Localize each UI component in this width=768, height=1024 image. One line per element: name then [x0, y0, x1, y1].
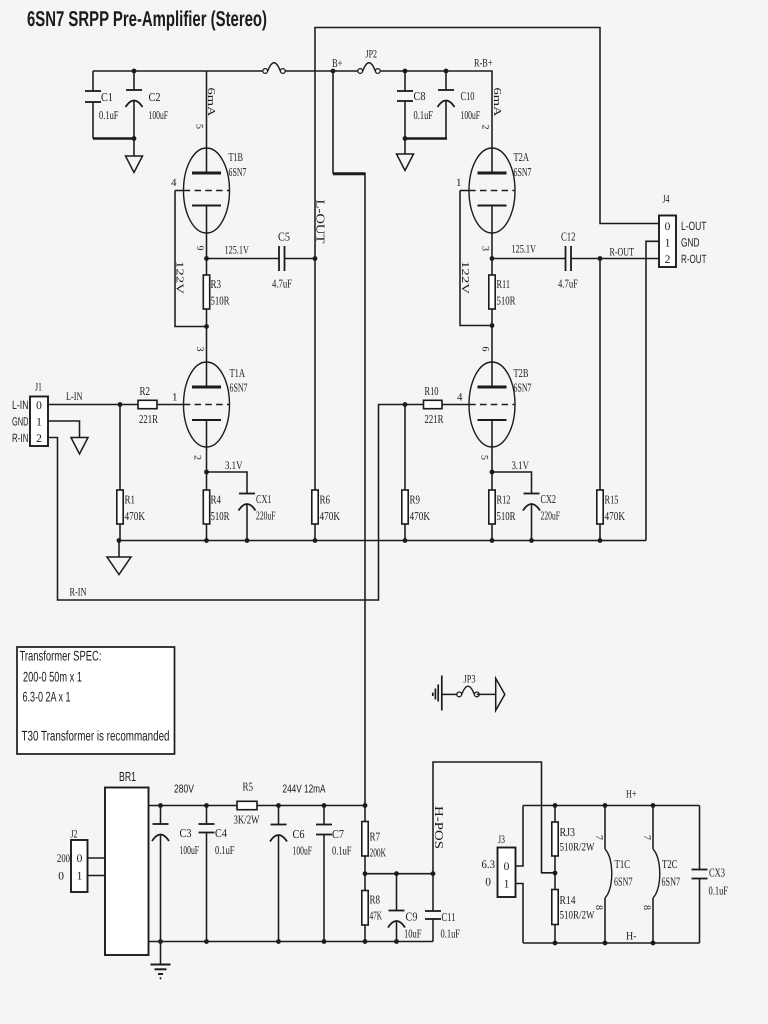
svg-text:T1B: T1B — [229, 150, 244, 164]
svg-text:R3: R3 — [211, 277, 222, 291]
node RJ4 bottom — [553, 941, 558, 946]
svg-text:8: 8 — [593, 905, 604, 910]
resistor RJ3 — [553, 803, 558, 808]
svg-text:470K: 470K — [320, 509, 341, 523]
svg-text:BR1: BR1 — [119, 769, 136, 784]
svg-text:C1: C1 — [101, 90, 113, 104]
svg-text:200: 200 — [57, 853, 70, 865]
svg-text:221R: 221R — [139, 412, 158, 426]
heater T2C — [651, 803, 656, 808]
svg-text:6.3: 6.3 — [482, 859, 496, 871]
node T1B cathode — [204, 256, 209, 261]
svg-text:0.1uF: 0.1uF — [99, 108, 119, 122]
connector J4 — [659, 216, 676, 268]
bridge rectifier BR1 — [105, 788, 149, 956]
svg-text:R-OUT: R-OUT — [610, 247, 635, 259]
node CX2 gnd — [529, 538, 534, 543]
ground J1 — [71, 438, 88, 455]
svg-text:C4: C4 — [215, 826, 227, 840]
svg-text:2: 2 — [480, 125, 491, 130]
svg-text:200K: 200K — [370, 846, 387, 860]
heater T1C — [603, 803, 608, 808]
node T2B plate — [490, 323, 495, 328]
node R1 top — [118, 402, 123, 407]
svg-text:220uF: 220uF — [541, 509, 561, 523]
svg-text:100uF: 100uF — [461, 108, 481, 122]
wire J2 pin0 to BR1 — [88, 857, 106, 859]
svg-text:JP2: JP2 — [366, 49, 378, 61]
resistor R6 — [314, 259, 316, 491]
svg-text:T1C: T1C — [615, 857, 631, 871]
node R7 R8 junction — [363, 871, 368, 876]
svg-text:J1: J1 — [35, 382, 42, 394]
wire T2A grid 122V — [460, 190, 470, 192]
capacitor C1 — [92, 71, 94, 91]
wire PSU B+ rail — [149, 805, 238, 807]
svg-text:4: 4 — [457, 392, 463, 404]
resistor R9 — [404, 405, 406, 491]
svg-text:1: 1 — [665, 238, 671, 250]
node T1A cathode 3.1V — [204, 470, 209, 475]
triode T1A — [206, 327, 208, 388]
svg-text:RJ3: RJ3 — [560, 825, 576, 839]
svg-text:221R: 221R — [425, 412, 444, 426]
svg-text:0.1uF: 0.1uF — [215, 843, 235, 857]
wire main B+ rail — [93, 70, 263, 72]
wire J3 pin0 riser — [516, 806, 524, 867]
svg-text:R14: R14 — [560, 893, 576, 907]
jumper JP3 — [457, 692, 462, 697]
svg-text:122V: 122V — [459, 261, 470, 295]
svg-text:100uF: 100uF — [180, 843, 200, 857]
svg-text:R1: R1 — [125, 493, 136, 507]
svg-text:6SN7 SRPP Pre-Amplifier (Stere: 6SN7 SRPP Pre-Amplifier (Stereo) — [27, 7, 267, 31]
svg-text:125.1V: 125.1V — [512, 244, 537, 256]
note transformer spec box — [17, 647, 175, 754]
svg-text:CX2: CX2 — [541, 492, 557, 506]
wire H+ bus — [523, 805, 700, 807]
resistor R11 — [491, 259, 493, 276]
svg-text:R4: R4 — [211, 493, 222, 507]
svg-text:6.3-0 2A x 1: 6.3-0 2A x 1 — [23, 689, 71, 705]
svg-text:510R/2W: 510R/2W — [560, 910, 595, 922]
wire B+ drop — [332, 71, 334, 174]
capacitor C5 — [207, 258, 280, 260]
svg-text:470K: 470K — [125, 509, 146, 523]
svg-text:5: 5 — [194, 124, 205, 129]
svg-text:4: 4 — [171, 177, 177, 189]
svg-text:CX3: CX3 — [709, 866, 725, 880]
svg-text:6SN7: 6SN7 — [514, 381, 532, 395]
wire L-OUT to J4 — [315, 28, 659, 259]
triode T2A — [491, 71, 493, 173]
wire J3 pin1 drop — [516, 884, 524, 944]
wire T1B cathode to node — [206, 206, 208, 259]
svg-text:3.1V: 3.1V — [225, 460, 243, 472]
svg-text:C6: C6 — [293, 827, 305, 841]
wire R-IN from J1 — [48, 405, 424, 601]
svg-text:R-OUT: R-OUT — [681, 252, 707, 266]
node T2B cathode 3.1V — [490, 470, 495, 475]
wire ground bus — [119, 540, 646, 542]
node B+ — [331, 69, 336, 74]
svg-text:100uF: 100uF — [149, 108, 169, 122]
ground below C8 — [404, 139, 406, 155]
svg-text:1: 1 — [77, 871, 83, 883]
resistor R5 — [237, 801, 257, 809]
capacitor CX3 — [699, 806, 701, 870]
svg-text:470K: 470K — [410, 509, 431, 523]
connector J1 — [30, 397, 48, 447]
capacitor C9 — [394, 871, 399, 876]
svg-text:125.1V: 125.1V — [225, 245, 250, 257]
svg-text:GND: GND — [12, 415, 29, 429]
capacitor CX2 — [492, 472, 532, 494]
svg-text:10uF: 10uF — [404, 927, 422, 941]
resistor R7 — [364, 806, 366, 822]
jumper JP1 — [263, 69, 268, 74]
ground bus symbol — [118, 541, 120, 558]
svg-text:C8: C8 — [414, 89, 426, 103]
svg-text:470K: 470K — [605, 509, 626, 523]
wire H-POS junction row — [365, 873, 433, 875]
svg-text:2: 2 — [192, 455, 203, 460]
svg-text:0.1uF: 0.1uF — [441, 927, 461, 941]
svg-text:280V: 280V — [174, 784, 194, 796]
svg-text:R-B+: R-B+ — [474, 58, 493, 70]
capacitor C11 — [431, 871, 436, 876]
wire J2 pin1 to BR1 — [88, 875, 106, 877]
svg-text:0: 0 — [36, 400, 42, 412]
node C7 gnd — [322, 939, 327, 944]
svg-text:C5: C5 — [278, 230, 290, 244]
svg-text:3: 3 — [194, 347, 205, 352]
svg-text:C3: C3 — [180, 826, 192, 840]
wire R2 to T1A grid — [157, 404, 184, 406]
resistor R2 — [138, 400, 157, 408]
wire L-IN — [48, 404, 138, 406]
ground below C2 — [133, 139, 135, 157]
wire B+ riser to PSU — [364, 173, 366, 806]
resistor R4 — [206, 472, 208, 490]
svg-text:R11: R11 — [497, 277, 511, 291]
capacitor C7 — [322, 803, 327, 808]
svg-text:J3: J3 — [498, 834, 505, 846]
node R12 gnd — [490, 538, 495, 543]
svg-text:R-IN: R-IN — [12, 431, 29, 445]
wire B+ jog — [333, 172, 365, 175]
wire T2B cathode — [491, 420, 493, 472]
node R9 top — [403, 402, 408, 407]
svg-text:R9: R9 — [410, 493, 421, 507]
wire C1-C2 bottom — [93, 137, 135, 140]
svg-text:T2C: T2C — [662, 857, 678, 871]
svg-text:6: 6 — [480, 347, 491, 352]
svg-text:L-OUT: L-OUT — [314, 200, 328, 245]
resistor R15 — [599, 259, 601, 491]
svg-text:C2: C2 — [149, 90, 161, 104]
resistor R12 — [491, 472, 493, 490]
node R-OUT junction — [598, 256, 603, 261]
svg-text:C12: C12 — [561, 230, 576, 244]
svg-text:6SN7: 6SN7 — [662, 875, 681, 889]
svg-text:T1A: T1A — [230, 366, 246, 380]
svg-text:5: 5 — [479, 455, 490, 460]
wire PSU ground bus — [149, 941, 434, 943]
node R8 gnd — [363, 939, 368, 944]
triode T2B — [491, 326, 493, 388]
capacitor C12 — [492, 258, 566, 260]
capacitor C4 — [204, 803, 209, 808]
svg-text:6SN7: 6SN7 — [514, 165, 532, 179]
svg-text:R10: R10 — [425, 384, 439, 398]
svg-text:1: 1 — [504, 879, 510, 891]
svg-text:7: 7 — [641, 835, 652, 840]
connector J2 — [71, 840, 88, 892]
node R6 gnd — [313, 538, 318, 543]
capacitor C6 — [276, 803, 281, 808]
svg-text:3K/2W: 3K/2W — [234, 813, 260, 827]
node C6 gnd — [276, 939, 281, 944]
wire T2A cathode to node — [491, 206, 493, 259]
svg-text:JP3: JP3 — [464, 674, 476, 686]
resistor R10 — [424, 400, 443, 408]
node heater center tap — [553, 871, 558, 876]
svg-text:6mA: 6mA — [491, 88, 502, 118]
svg-text:2: 2 — [36, 433, 42, 445]
svg-text:0: 0 — [485, 877, 491, 889]
svg-text:4.7uF: 4.7uF — [272, 277, 292, 291]
node CX1 gnd — [245, 538, 250, 543]
wire T1B grid 122V — [175, 190, 184, 192]
svg-text:510R: 510R — [211, 294, 230, 308]
wire JP3 right — [477, 693, 496, 695]
svg-text:L-OUT: L-OUT — [681, 219, 707, 233]
svg-text:J4: J4 — [663, 194, 670, 206]
svg-text:122V: 122V — [174, 261, 185, 295]
arrow JP3 — [496, 678, 505, 710]
svg-text:R2: R2 — [140, 384, 151, 398]
svg-text:6mA: 6mA — [205, 88, 216, 118]
wire H-POS — [433, 762, 553, 874]
svg-text:R8: R8 — [370, 893, 381, 907]
capacitor C8 — [403, 69, 408, 74]
svg-text:1: 1 — [172, 392, 178, 404]
svg-text:0.1uF: 0.1uF — [709, 884, 729, 898]
node T2A cathode — [490, 256, 495, 261]
svg-text:0: 0 — [77, 853, 83, 865]
node T1A plate — [204, 324, 209, 329]
wire H- bus — [523, 942, 700, 944]
svg-text:C7: C7 — [332, 827, 344, 841]
svg-text:244V 12mA: 244V 12mA — [283, 784, 326, 796]
svg-text:R-IN: R-IN — [70, 587, 87, 599]
resistor R8 — [364, 874, 366, 891]
svg-text:0.1uF: 0.1uF — [414, 108, 434, 122]
svg-text:0: 0 — [665, 221, 671, 233]
capacitor C10 — [444, 69, 449, 74]
node L-OUT junction — [313, 256, 318, 261]
wire C8-C10 bottom — [405, 137, 447, 140]
svg-text:R5: R5 — [243, 780, 254, 794]
node R1 gnd — [117, 538, 122, 543]
svg-text:C10: C10 — [461, 89, 475, 103]
chassis bars JP3 — [441, 676, 443, 711]
svg-text:3: 3 — [480, 246, 491, 251]
svg-text:R7: R7 — [370, 830, 381, 844]
capacitor C3 — [158, 803, 163, 808]
svg-text:H+: H+ — [626, 789, 637, 801]
svg-text:Transformer SPEC:: Transformer SPEC: — [20, 648, 102, 664]
svg-text:510R: 510R — [497, 294, 516, 308]
svg-text:8: 8 — [641, 905, 652, 910]
svg-text:CX1: CX1 — [256, 492, 272, 506]
svg-text:2: 2 — [665, 254, 671, 266]
svg-text:7: 7 — [593, 835, 604, 840]
triode T1B — [206, 71, 208, 173]
node C9 gnd — [394, 939, 399, 944]
svg-text:510R: 510R — [211, 509, 230, 523]
connector J3 — [498, 848, 516, 898]
jumper JP2 — [358, 69, 363, 74]
svg-text:C11: C11 — [442, 910, 456, 924]
svg-text:T2A: T2A — [514, 150, 530, 164]
resistor RJ4 — [554, 873, 556, 890]
svg-text:L-IN: L-IN — [12, 398, 29, 412]
wire R10 to T2B grid — [442, 404, 470, 406]
svg-text:J2: J2 — [71, 829, 78, 841]
svg-text:B+: B+ — [332, 56, 343, 70]
wire J4 gnd riser — [646, 241, 659, 540]
svg-text:100uF: 100uF — [293, 844, 313, 858]
svg-text:R12: R12 — [497, 493, 511, 507]
svg-text:0.1uF: 0.1uF — [332, 844, 352, 858]
node R15 gnd — [598, 538, 603, 543]
svg-text:L-IN: L-IN — [66, 391, 83, 403]
svg-text:GND: GND — [681, 236, 700, 250]
node B+ PSU — [363, 803, 368, 808]
svg-text:H-POS: H-POS — [432, 806, 446, 849]
wire J1 gnd — [48, 421, 80, 438]
svg-text:T2B: T2B — [514, 366, 529, 380]
svg-text:510R: 510R — [497, 509, 516, 523]
capacitor C2 — [132, 69, 137, 74]
svg-text:0: 0 — [504, 861, 510, 873]
resistor R3 — [206, 259, 208, 276]
svg-text:T30 Transformer is recommanded: T30 Transformer is recommanded — [22, 728, 170, 744]
capacitor CX1 — [207, 472, 248, 494]
svg-text:C9: C9 — [406, 910, 418, 924]
svg-text:200-0 50m x 1: 200-0 50m x 1 — [23, 669, 82, 685]
wire JP3 left — [442, 693, 457, 695]
node C3 gnd — [158, 939, 163, 944]
resistor R1 — [119, 405, 121, 491]
node C4 gnd — [204, 939, 209, 944]
svg-text:6SN7: 6SN7 — [229, 165, 247, 179]
wire T1A cathode — [206, 420, 208, 472]
svg-text:H-: H- — [626, 931, 637, 943]
node R4 gnd — [204, 538, 209, 543]
svg-text:0: 0 — [58, 871, 64, 883]
svg-text:R6: R6 — [320, 493, 331, 507]
svg-text:6SN7: 6SN7 — [230, 381, 248, 395]
svg-text:4.7uF: 4.7uF — [558, 277, 578, 291]
svg-text:510R/2W: 510R/2W — [560, 842, 595, 854]
svg-text:6SN7: 6SN7 — [614, 875, 633, 889]
svg-text:220uF: 220uF — [256, 509, 276, 523]
svg-text:1: 1 — [36, 417, 42, 429]
svg-text:3.1V: 3.1V — [512, 460, 530, 472]
svg-text:47K: 47K — [370, 909, 383, 923]
node R9 gnd — [403, 538, 408, 543]
earth ground PSU — [160, 942, 162, 965]
svg-text:9: 9 — [194, 246, 205, 251]
svg-text:1: 1 — [456, 177, 462, 189]
svg-text:R15: R15 — [605, 493, 619, 507]
